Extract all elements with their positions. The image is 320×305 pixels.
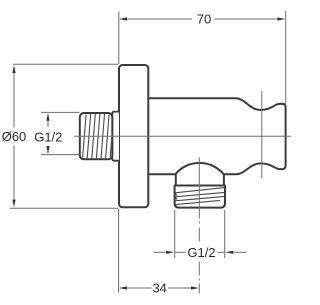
centerline: horizontal main axis	[74, 135, 291, 137]
outlet nut (threaded, G1/2)	[175, 186, 225, 208]
nut thread lines	[175, 188, 224, 205]
centerline: outlet vertical	[198, 158, 200, 294]
dimension G1/2 left: down arrow	[46, 146, 49, 154]
dimension G1/2 bottom: right outside line and arrow	[228, 251, 247, 253]
dimension 34: left arrow	[119, 286, 127, 289]
dimension G1/2 left: up arrow	[46, 113, 49, 121]
threaded inlet nipple G1/2	[80, 113, 113, 159]
dimension G1/2 bottom: left extension line	[174, 210, 176, 258]
dimension D60: down arrow	[12, 200, 15, 208]
svg-text:34: 34	[152, 281, 166, 296]
dimension G1/2 left: dimension line	[47, 114, 49, 127]
dimension G1/2 left: top extension line	[41, 111, 80, 113]
dimension G1/2 bottom: right extension line	[224, 210, 226, 258]
svg-text:G1/2: G1/2	[187, 245, 215, 260]
dimension 70: right arrow	[278, 17, 286, 20]
dimension 34: right arrow	[191, 286, 199, 289]
svg-text:Ø60: Ø60	[2, 129, 27, 144]
dimension D60: dimension line	[13, 67, 15, 128]
outlet neck right side	[223, 175, 225, 186]
dimension D60: top extension line	[13, 63, 118, 65]
centerline: holder knob vertical	[261, 91, 263, 179]
wall flange plate (side view)	[119, 65, 148, 207]
nipple thread lines	[83, 114, 113, 158]
dimension 34: left extension line	[118, 209, 120, 293]
dimension 70: left arrow	[119, 17, 127, 20]
dimension D60: up arrow	[12, 65, 15, 73]
svg-text:G1/2: G1/2	[34, 129, 62, 144]
outlet neck left side	[175, 175, 177, 186]
body arm and holder knob outline (incl. outlet dome boss)	[148, 98, 285, 174]
svg-text:70: 70	[197, 12, 211, 27]
dimension G1/2 left: bottom extension line	[41, 154, 80, 156]
dimension 34: dimension line	[120, 287, 152, 289]
dimension G1/2 bottom: inner line stubs	[175, 251, 186, 253]
dimension D60: bottom extension line	[10, 207, 119, 209]
dimension G1/2 bottom: left outside line and arrow	[154, 251, 173, 253]
dimension 70: left extension line	[118, 12, 120, 65]
dimension 70: dimension line	[120, 18, 192, 20]
inlet collar	[112, 112, 119, 161]
dimension 70: right extension line	[285, 11, 287, 105]
